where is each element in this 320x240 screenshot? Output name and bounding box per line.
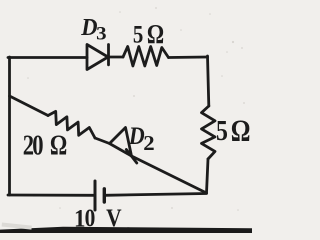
svg-text:D: D [80,14,97,41]
label D3 [80,14,106,44]
svg-text:1: 1 [74,206,85,233]
diode D3 [87,45,109,70]
svg-text:0: 0 [85,204,96,232]
resistor R1 5ohm top [123,47,169,67]
svg-text:Ω: Ω [50,129,67,162]
svg-text:5: 5 [133,21,143,50]
wire diagonal lower segment [132,156,207,193]
label 5 ohm top [133,20,164,50]
svg-text:D: D [128,123,145,151]
svg-text:Ω: Ω [147,20,164,50]
wire right upper segment [208,56,209,106]
wire top-right segment [169,56,208,59]
wire bottom-left segment [8,194,95,197]
svg-text:2: 2 [143,131,154,155]
battery 10V [95,181,104,210]
label 10 V [74,204,122,232]
wire diagonal upper segment [10,96,49,116]
wire top-left segment [8,56,87,59]
svg-text:0: 0 [32,129,43,161]
svg-text:3: 3 [96,24,107,45]
wire top-middle segment [109,56,124,59]
svg-text:5: 5 [216,114,228,147]
diode D2 [110,128,137,164]
resistor R3 20ohm diagonal [48,111,95,138]
label D2 [128,123,155,155]
wire right lower segment [207,159,209,193]
resistor R2 5ohm right [202,106,216,159]
svg-text:Ω: Ω [231,113,251,147]
label 5 ohm right [216,113,250,147]
wire left side [8,57,11,195]
wire diagonal middle segment [95,138,110,144]
label 20 ohm [23,129,68,162]
svg-text:V: V [106,204,122,232]
wire bottom-right segment [105,194,207,196]
